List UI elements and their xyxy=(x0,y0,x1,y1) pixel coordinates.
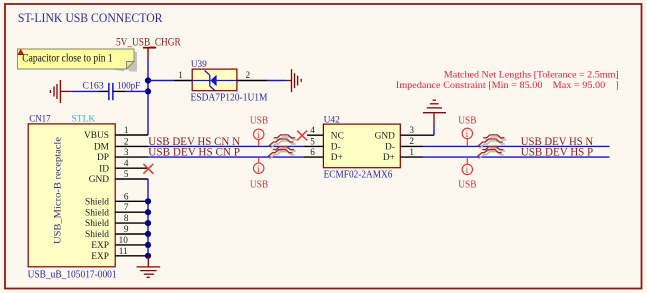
svg-text:2: 2 xyxy=(124,136,129,146)
svg-text:3: 3 xyxy=(124,147,129,157)
wire: U42 GND up xyxy=(433,126,435,136)
svg-text:EXP: EXP xyxy=(91,252,109,262)
node: junction at capacitor branch xyxy=(145,88,151,94)
svg-text:2: 2 xyxy=(246,70,251,80)
CN17 pin names xyxy=(84,131,110,262)
svg-text:Shield: Shield xyxy=(85,230,109,240)
USB directive (left top) xyxy=(250,116,268,147)
wire: USB_DEV_HS_CN_P xyxy=(148,156,304,158)
wire: ground to C163 xyxy=(72,90,99,92)
svg-text:i: i xyxy=(257,131,260,141)
svg-text:i: i xyxy=(466,130,469,140)
svg-text:STLK: STLK xyxy=(72,114,96,124)
ground (capacitor C163 left) xyxy=(50,80,71,103)
svg-text:4: 4 xyxy=(310,125,315,135)
svg-text:NC: NC xyxy=(331,131,344,141)
capacitor C163 xyxy=(82,82,140,101)
svg-text:USB_uB_105017-0001: USB_uB_105017-0001 xyxy=(28,270,117,281)
svg-text:D-: D- xyxy=(331,143,341,153)
pin of C163 (right) xyxy=(113,90,126,92)
note: Capacitor close to pin 1 xyxy=(18,49,138,72)
USB directive (left bottom) xyxy=(250,157,268,191)
svg-text:ID: ID xyxy=(99,164,109,174)
svg-text:ESDA7P120-1U1M: ESDA7P120-1U1M xyxy=(191,93,268,104)
svg-text:7: 7 xyxy=(124,202,129,212)
svg-text:Shield: Shield xyxy=(85,197,109,207)
node: junction at diode branch xyxy=(145,77,151,83)
svg-text:U39: U39 xyxy=(191,59,207,69)
svg-text:6: 6 xyxy=(310,147,315,157)
differential pair directive (left, N wire) xyxy=(268,135,297,148)
ground (U42 pin 3, pointing up) xyxy=(423,100,446,125)
svg-text:10: 10 xyxy=(119,235,129,245)
svg-text:1: 1 xyxy=(124,125,129,135)
svg-text:USB_Micro-B receptacle: USB_Micro-B receptacle xyxy=(54,137,64,244)
svg-text:i: i xyxy=(466,166,469,176)
node: shield bus junctions xyxy=(145,198,151,259)
CN17 pin numbers xyxy=(119,125,129,256)
pin 1 of U42 xyxy=(400,156,423,158)
differential pair directive (right, P wire) xyxy=(477,147,506,160)
svg-text:USB DEV HS P: USB DEV HS P xyxy=(521,147,593,159)
no connect X on CN17 pin 4 (ID) xyxy=(143,164,153,174)
svg-text:5: 5 xyxy=(124,169,129,179)
svg-text:Matched Net Lengths [Tolerance: Matched Net Lengths [Tolerance = 2.5mm] xyxy=(444,70,619,81)
svg-text:2: 2 xyxy=(409,136,414,146)
svg-text:6: 6 xyxy=(124,191,129,201)
svg-text:1: 1 xyxy=(178,70,183,80)
pin 5 of U42 xyxy=(304,145,323,147)
svg-text:GND: GND xyxy=(375,131,396,141)
svg-text:ST-LINK USB CONNECTOR: ST-LINK USB CONNECTOR xyxy=(18,11,163,25)
wire: USB_DEV_HS_CN_N xyxy=(148,145,304,147)
svg-text:Impedance Constraint [Min = 85: Impedance Constraint [Min = 85.00 Max = … xyxy=(396,80,619,91)
svg-text:D-: D- xyxy=(385,143,395,153)
wire: 5V vertical to CN17 pin1 xyxy=(147,58,149,135)
pin 1 of U39 xyxy=(174,80,192,82)
wire: U39 to right ground xyxy=(267,80,286,82)
wire: USB_DEV_HS_N xyxy=(423,145,610,147)
svg-text:5: 5 xyxy=(310,136,315,146)
svg-text:Shield: Shield xyxy=(85,208,109,218)
svg-text:Capacitor close to pin 1: Capacitor close to pin 1 xyxy=(22,53,113,65)
ground (CN17 shield) xyxy=(137,256,161,277)
svg-text:USB: USB xyxy=(458,180,476,191)
svg-text:3: 3 xyxy=(409,125,414,135)
differential pair directive (left, P wire) xyxy=(267,147,296,160)
svg-text:D+: D+ xyxy=(383,153,395,163)
svg-text:DP: DP xyxy=(97,153,109,163)
ground (right of U39) xyxy=(286,69,302,92)
power port 5V_USB_CHGR xyxy=(116,37,181,58)
pin 6 of U42 xyxy=(304,156,323,158)
svg-text:VBUS: VBUS xyxy=(84,131,109,141)
svg-text:D+: D+ xyxy=(331,153,343,163)
svg-text:100pF: 100pF xyxy=(117,82,140,92)
svg-text:9: 9 xyxy=(124,224,129,234)
differential pair directive (right, N wire) xyxy=(478,135,507,148)
no connect X on U42 pin 4 (NC) xyxy=(297,131,307,141)
svg-text:8: 8 xyxy=(124,213,129,223)
svg-text:USB DEV HS CN P: USB DEV HS CN P xyxy=(148,147,240,159)
svg-text:Shield: Shield xyxy=(85,219,109,229)
diode U39 xyxy=(191,59,268,104)
CN17 pin stubs xyxy=(115,135,148,256)
svg-text:ECMF02-2AMX6: ECMF02-2AMX6 xyxy=(324,169,393,180)
IC U42 xyxy=(323,115,400,180)
svg-text:4: 4 xyxy=(124,158,129,168)
USB directive (right top) xyxy=(458,116,476,147)
wire: USB_DEV_HS_P xyxy=(423,156,610,158)
svg-text:CN17: CN17 xyxy=(29,114,51,124)
wire: junction to diode U39 xyxy=(148,80,174,82)
svg-text:i: i xyxy=(257,165,260,175)
connector CN17 xyxy=(28,114,117,280)
svg-text:EXP: EXP xyxy=(91,241,109,251)
pin 3 of U42 xyxy=(400,134,434,136)
svg-text:GND: GND xyxy=(89,175,110,185)
pin 2 of U39 xyxy=(237,80,267,82)
svg-text:USB: USB xyxy=(250,116,268,127)
wire: C163 to junction xyxy=(126,90,148,92)
svg-text:DM: DM xyxy=(94,143,110,153)
USB directive (right bottom) xyxy=(458,157,476,191)
svg-text:C163: C163 xyxy=(82,82,104,92)
pin 2 of U42 xyxy=(400,145,423,147)
pin of C163 (left) xyxy=(99,90,109,92)
svg-text:11: 11 xyxy=(119,246,128,256)
svg-text:USB: USB xyxy=(250,180,268,191)
svg-text:1: 1 xyxy=(409,147,414,157)
pin 4 of U42 xyxy=(307,134,323,136)
wire: CN17 GND shield bus xyxy=(147,179,149,259)
svg-text:USB: USB xyxy=(458,116,476,127)
